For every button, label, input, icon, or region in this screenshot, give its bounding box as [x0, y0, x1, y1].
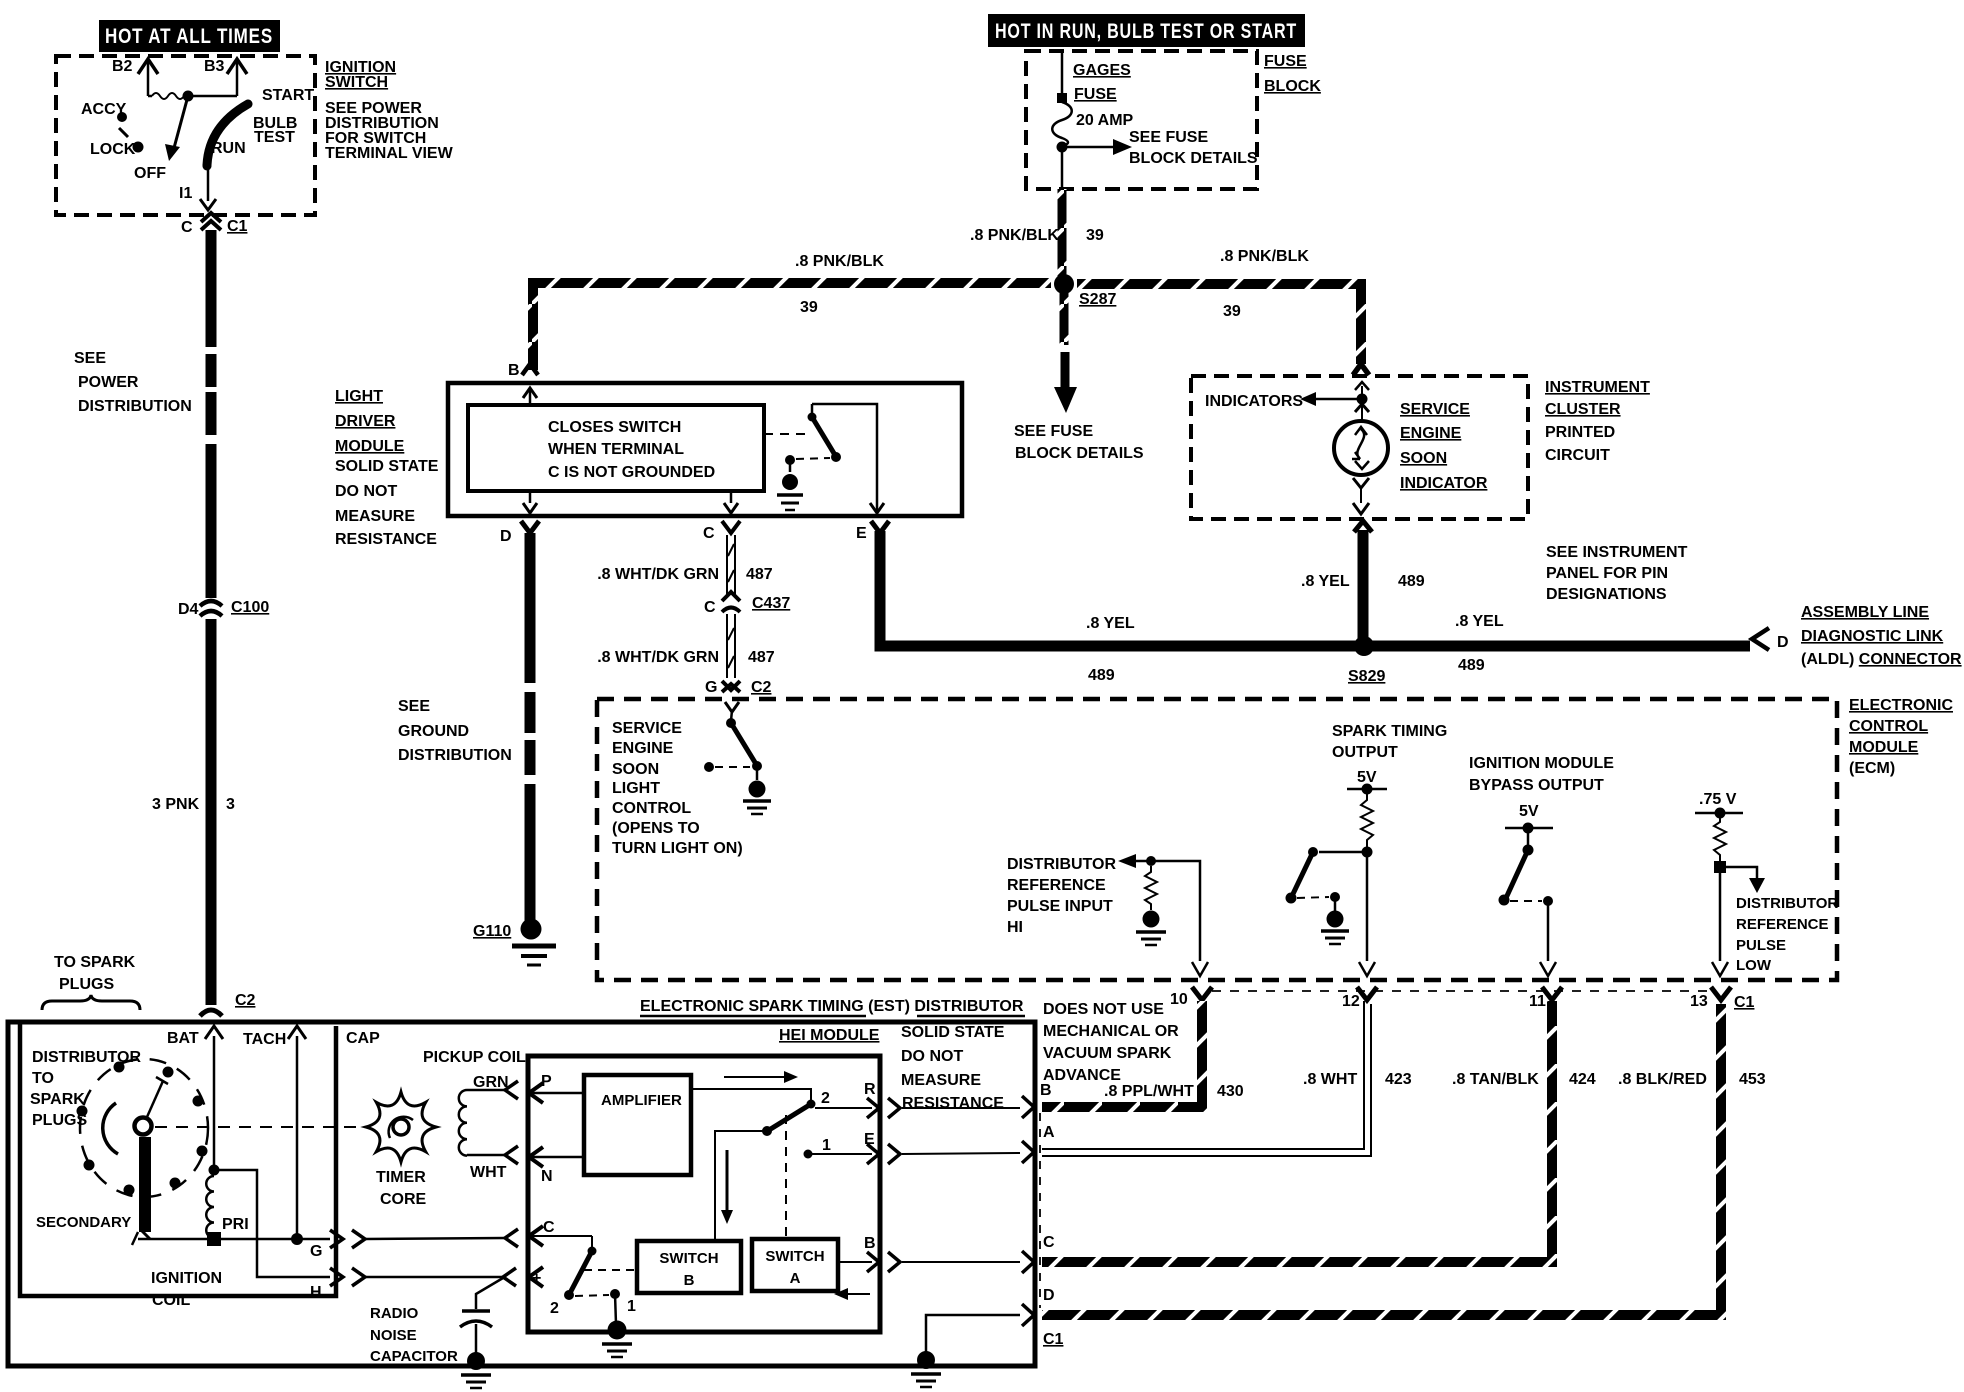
svg-text:PRI: PRI — [222, 1216, 249, 1233]
svg-text:TURN LIGHT ON): TURN LIGHT ON) — [612, 840, 743, 857]
dashed link lever to switch B — [584, 1269, 637, 1271]
svg-text:D4: D4 — [178, 601, 199, 618]
svg-text:BYPASS OUTPUT: BYPASS OUTPUT — [1469, 777, 1604, 794]
wire rotor to coil — [132, 1232, 330, 1245]
svg-text:CLOSES SWITCH: CLOSES SWITCH — [548, 419, 681, 436]
terminal G — [310, 1230, 365, 1260]
note ECM — [1849, 697, 1953, 777]
svg-text:SOON: SOON — [1400, 450, 1447, 467]
svg-text:N: N — [541, 1168, 553, 1185]
svg-text:BAT: BAT — [167, 1030, 199, 1047]
terminal C HEI — [529, 1219, 592, 1246]
ground SES switch — [743, 766, 771, 814]
wire amplifier to contact 2 — [691, 1089, 830, 1109]
svg-text:DO NOT: DO NOT — [901, 1048, 963, 1065]
spark timing output — [1332, 723, 1447, 795]
svg-text:487: 487 — [748, 649, 775, 666]
resistor ref pulse HI — [1145, 866, 1157, 910]
svg-text:IGNITION MODULE: IGNITION MODULE — [1469, 755, 1614, 772]
wire bypass to pin 11 — [1540, 901, 1556, 976]
svg-text:SOON: SOON — [612, 761, 659, 778]
svg-text:(ECM): (ECM) — [1849, 760, 1895, 777]
label pickup coil — [423, 1049, 526, 1066]
connector C100 — [178, 599, 269, 618]
svg-text:2: 2 — [550, 1300, 559, 1317]
dashed link to switch A — [785, 1115, 787, 1236]
terminal B3 — [204, 58, 247, 96]
pickup coil winding — [459, 1090, 467, 1156]
svg-text:SERVICE: SERVICE — [612, 720, 682, 737]
wire ref low to pin 13 — [1712, 873, 1728, 976]
svg-text:3: 3 — [226, 796, 235, 813]
svg-text:DISTRIBUTOR: DISTRIBUTOR — [1007, 856, 1116, 873]
svg-text:D: D — [1043, 1287, 1055, 1304]
svg-text:GRN: GRN — [473, 1074, 509, 1091]
svg-text:DO NOT: DO NOT — [335, 483, 397, 500]
flow arrow down — [721, 1150, 733, 1224]
svg-text:CIRCUIT: CIRCUIT — [1545, 447, 1610, 464]
terminal D — [500, 521, 539, 545]
svg-text:39: 39 — [1086, 227, 1104, 244]
wire .8 WHT 423 — [1042, 1001, 1412, 1156]
svg-text:C1: C1 — [227, 218, 248, 235]
internal switch — [764, 404, 841, 465]
HEI module box — [528, 1056, 880, 1332]
svg-text:C2: C2 — [235, 992, 256, 1009]
svg-text:.8 BLK/RED: .8 BLK/RED — [1618, 1071, 1707, 1088]
svg-text:CONTROL: CONTROL — [1849, 718, 1928, 735]
svg-text:ENGINE: ENGINE — [612, 740, 674, 757]
wire .8 BLK/RED 453 — [1042, 1004, 1766, 1315]
svg-text:CAP: CAP — [346, 1030, 380, 1047]
svg-text:DISTRIBUTOR: DISTRIBUTOR — [32, 1049, 141, 1066]
svg-text:DISTRIBUTOR: DISTRIBUTOR — [1736, 895, 1838, 912]
fuse block box — [1026, 51, 1321, 189]
connector C1 (ignition switch to harness) — [181, 213, 248, 236]
svg-text:424: 424 — [1569, 1071, 1596, 1088]
svg-text:REFERENCE: REFERENCE — [1736, 916, 1829, 933]
SES light control switch — [704, 702, 762, 772]
svg-text:CONTROL: CONTROL — [612, 800, 691, 817]
resistor ref pulse low — [1714, 813, 1726, 862]
svg-text:MODULE: MODULE — [1849, 739, 1919, 756]
splice S287 — [1054, 274, 1116, 308]
svg-text:LIGHT: LIGHT — [612, 780, 660, 797]
title HEI MODULE — [779, 1027, 880, 1044]
arrow under switch A — [834, 1288, 870, 1300]
label I1 — [179, 185, 192, 202]
rotor — [103, 1077, 168, 1239]
svg-text:B3: B3 — [204, 58, 225, 75]
wire spark timing to pin 12 — [1359, 852, 1375, 976]
svg-text:CAPACITOR: CAPACITOR — [370, 1348, 458, 1365]
wire R to B — [902, 1107, 1020, 1109]
SECTION-G distributor — [8, 954, 1766, 1388]
wire into fuse — [1057, 51, 1067, 103]
svg-text:C: C — [703, 525, 715, 542]
pin 10 chevron — [1192, 987, 1212, 1000]
driver logic box — [468, 405, 764, 491]
svg-text:PANEL FOR PIN: PANEL FOR PIN — [1546, 565, 1668, 582]
svg-text:HOT AT ALL TIMES: HOT AT ALL TIMES — [105, 25, 273, 48]
svg-text:C IS NOT GROUNDED: C IS NOT GROUNDED — [548, 464, 715, 481]
distributor cap ring — [77, 1059, 209, 1197]
pin 13 chevron — [1711, 987, 1731, 1000]
svg-text:39: 39 — [1223, 303, 1241, 320]
svg-text:PRINTED: PRINTED — [1545, 424, 1615, 441]
svg-text:DOES NOT USE: DOES NOT USE — [1043, 1001, 1164, 1018]
note see instrument panel — [1546, 544, 1688, 603]
svg-text:.8 WHT/DK GRN: .8 WHT/DK GRN — [597, 566, 719, 583]
svg-text:NOISE: NOISE — [370, 1327, 417, 1344]
svg-text:B: B — [1040, 1082, 1052, 1099]
svg-text:TEST: TEST — [254, 129, 295, 146]
ignition coil box — [20, 1024, 336, 1296]
svg-text:PULSE: PULSE — [1736, 937, 1786, 954]
note SES light control — [612, 720, 743, 857]
pin 12 chevron — [1357, 987, 1377, 1000]
connector C2 to ECM — [705, 679, 772, 696]
terminal D distributor — [1022, 1287, 1064, 1348]
wire RUN to C — [200, 162, 216, 211]
svg-text:RADIO: RADIO — [370, 1305, 419, 1322]
wire logic to D — [523, 491, 537, 513]
svg-text:5V: 5V — [1519, 803, 1539, 820]
svg-text:(ALDL) CONNECTOR: (ALDL) CONNECTOR — [1801, 651, 1962, 668]
svg-text:HOT IN RUN, BULB TEST OR START: HOT IN RUN, BULB TEST OR START — [995, 20, 1297, 43]
svg-text:I1: I1 — [179, 185, 192, 202]
svg-text:LOW: LOW — [1736, 957, 1772, 974]
node ref pulse low — [1714, 861, 1726, 873]
svg-text:R: R — [864, 1081, 876, 1098]
svg-text:OFF: OFF — [134, 165, 166, 182]
svg-text:SECONDARY: SECONDARY — [36, 1214, 131, 1231]
svg-text:SEE FUSE: SEE FUSE — [1129, 129, 1208, 146]
arrow see fuse block details — [1067, 129, 1258, 167]
svg-text:.8 TAN/BLK: .8 TAN/BLK — [1452, 1071, 1539, 1088]
note ALDL — [1801, 604, 1962, 668]
terminal R — [815, 1081, 900, 1118]
svg-text:G: G — [310, 1243, 322, 1260]
node TACH on G wire — [291, 1233, 303, 1245]
terminal C — [703, 521, 740, 542]
svg-text:13: 13 — [1690, 993, 1708, 1010]
SECTION-A ignition switch — [56, 20, 454, 215]
switch B box — [637, 1241, 741, 1293]
SECTION-F ECM — [597, 697, 1953, 1011]
svg-text:A: A — [790, 1270, 801, 1287]
svg-text:C: C — [704, 599, 716, 616]
ground ref pulse HI — [1136, 911, 1166, 946]
resistor spark timing — [1361, 789, 1373, 847]
wire H to HEI plus — [365, 1268, 516, 1286]
svg-text:LOCK: LOCK — [90, 141, 136, 158]
svg-text:MEASURE: MEASURE — [901, 1072, 981, 1089]
lever START — [207, 87, 314, 165]
svg-text:D: D — [1777, 634, 1789, 651]
terminal B HEI — [838, 1235, 900, 1272]
svg-text:SPARK TIMING: SPARK TIMING — [1332, 723, 1447, 740]
wire .8 PNK/BLK to light driver module — [533, 253, 1051, 370]
svg-text:.75 V: .75 V — [1699, 791, 1737, 808]
svg-text:GAGES: GAGES — [1073, 62, 1131, 79]
svg-text:MEASURE: MEASURE — [335, 508, 415, 525]
wire B to C — [902, 1261, 1020, 1263]
label BULB TEST — [253, 115, 297, 146]
terminal H — [310, 1268, 365, 1301]
radio noise capacitor — [370, 1278, 503, 1365]
svg-text:S829: S829 — [1348, 668, 1385, 685]
wire D to case ground — [926, 1315, 1020, 1360]
note see ground distribution — [398, 698, 512, 764]
distributor outer box — [8, 1022, 1035, 1366]
svg-text:1: 1 — [822, 1137, 831, 1154]
svg-text:3 PNK: 3 PNK — [152, 796, 200, 813]
svg-text:TO SPARK: TO SPARK — [54, 954, 136, 971]
switch lever to OFF — [165, 96, 188, 161]
svg-text:WHEN TERMINAL: WHEN TERMINAL — [548, 441, 684, 458]
note instrument cluster printed circuit — [1545, 379, 1650, 464]
wire 3 PNK ignition feed — [206, 230, 217, 598]
ALDL connector arrow D — [1752, 628, 1789, 651]
svg-text:B: B — [864, 1235, 876, 1252]
node coil primary top — [209, 1165, 220, 1176]
svg-text:12: 12 — [1342, 993, 1360, 1010]
svg-text:TACH: TACH — [243, 1031, 286, 1048]
wire B2-B3 bus — [148, 93, 237, 99]
svg-text:BLOCK DETAILS: BLOCK DETAILS — [1015, 445, 1144, 462]
SECTION-C fuse block — [533, 14, 1361, 462]
contact LOCK — [90, 128, 144, 158]
svg-text:TO: TO — [32, 1070, 54, 1087]
contact 1 — [804, 1137, 873, 1159]
SECTION-B left power wire — [74, 213, 269, 1016]
label .8 YEL 489 right — [1455, 613, 1504, 674]
svg-text:11: 11 — [1529, 993, 1546, 1010]
svg-text:TIMER: TIMER — [376, 1169, 426, 1186]
svg-text:CORE: CORE — [380, 1191, 427, 1208]
SECTION-E instrument cluster and ALDL — [1191, 364, 1962, 685]
wire E to A — [902, 1153, 1020, 1154]
svg-text:PLUGS: PLUGS — [59, 976, 114, 993]
svg-text:430: 430 — [1217, 1083, 1244, 1100]
svg-text:SOLID STATE: SOLID STATE — [335, 458, 439, 475]
svg-text:HEI MODULE: HEI MODULE — [779, 1027, 880, 1044]
lead GRN — [467, 1074, 518, 1099]
node fuse output — [1057, 142, 1068, 189]
ground spark timing switch — [1321, 897, 1349, 944]
svg-text:SERVICE: SERVICE — [1400, 401, 1470, 418]
svg-text:C1: C1 — [1734, 994, 1755, 1011]
svg-text:DESIGNATIONS: DESIGNATIONS — [1546, 586, 1667, 603]
wire G to HEI C — [365, 1229, 518, 1247]
wire .8 PNK/BLK 39 from fuse — [970, 189, 1104, 278]
svg-text:.8 PNK/BLK: .8 PNK/BLK — [1220, 248, 1309, 265]
label ignition coil — [151, 1270, 222, 1309]
svg-text:B2: B2 — [112, 58, 133, 75]
SECTION-H HEI module — [528, 1024, 1020, 1357]
svg-text:DISTRIBUTION: DISTRIBUTION — [398, 747, 512, 764]
banner HOT IN RUN, BULB TEST OR START — [988, 14, 1305, 47]
arrow distributor reference pulse low — [1720, 867, 1838, 974]
svg-text:C: C — [1043, 1234, 1055, 1251]
terminal E — [864, 1131, 900, 1164]
svg-text:MODULE: MODULE — [335, 438, 405, 455]
switch 2-1 coil control — [550, 1236, 636, 1317]
terminal B top — [508, 362, 538, 405]
svg-text:SWITCH: SWITCH — [659, 1250, 718, 1267]
note light driver module — [335, 388, 439, 548]
svg-text:DRIVER: DRIVER — [335, 413, 396, 430]
coil PRI winding — [206, 1176, 248, 1238]
note to spark plugs — [42, 954, 140, 1010]
ground HEI — [602, 1294, 632, 1357]
svg-text:.8 PPL/WHT: .8 PPL/WHT — [1104, 1083, 1194, 1100]
svg-text:5V: 5V — [1357, 769, 1377, 786]
svg-text:SWITCH: SWITCH — [765, 1248, 824, 1265]
terminal B2 — [112, 58, 158, 96]
node coil primary bottom — [207, 1232, 221, 1246]
SECTION-D light driver module — [335, 362, 1750, 965]
lead WHT — [467, 1146, 518, 1181]
svg-text:E: E — [856, 525, 867, 542]
svg-text:C100: C100 — [231, 599, 269, 616]
ground in module — [777, 460, 803, 510]
node switch pivot — [183, 91, 194, 102]
svg-text:.8 WHT/DK GRN: .8 WHT/DK GRN — [597, 649, 719, 666]
svg-text:.8 YEL: .8 YEL — [1086, 615, 1135, 632]
svg-text:39: 39 — [800, 299, 818, 316]
note distributor to spark plugs — [30, 1049, 141, 1129]
svg-text:SEE FUSE: SEE FUSE — [1014, 423, 1093, 440]
svg-text:HI: HI — [1007, 919, 1023, 936]
node indicators junction — [1357, 394, 1368, 405]
terminal plus — [529, 1267, 543, 1287]
label .8 YEL 489 left — [1086, 615, 1135, 684]
connector C1 pin row — [1170, 991, 1755, 1011]
svg-text:.8 PNK/BLK: .8 PNK/BLK — [795, 253, 884, 270]
terminal N — [529, 1147, 584, 1185]
terminal TACH — [243, 1026, 306, 1236]
svg-text:SEE: SEE — [74, 350, 106, 367]
svg-text:PULSE INPUT: PULSE INPUT — [1007, 898, 1113, 915]
terminal BAT — [167, 1026, 223, 1168]
arrow to INDICATORS — [1205, 392, 1357, 410]
indicator bulb — [1334, 421, 1388, 475]
svg-text:C2: C2 — [751, 679, 772, 696]
svg-text:POWER: POWER — [78, 374, 139, 391]
svg-text:.8 WHT: .8 WHT — [1303, 1071, 1357, 1088]
svg-text:BLOCK: BLOCK — [1264, 78, 1321, 95]
svg-text:.8 PNK/BLK: .8 PNK/BLK — [970, 227, 1059, 244]
connector dashed line C1 — [1039, 1113, 1041, 1308]
splice S829 — [1348, 636, 1385, 685]
svg-text:489: 489 — [1398, 573, 1425, 590]
svg-text:MECHANICAL OR: MECHANICAL OR — [1043, 1023, 1179, 1040]
terminal C distributor — [1022, 1234, 1055, 1273]
note see power distribution — [74, 350, 192, 415]
svg-text:INDICATOR: INDICATOR — [1400, 475, 1488, 492]
wire switch to E — [812, 404, 877, 512]
svg-text:C: C — [181, 219, 193, 236]
switch lever EST — [715, 1104, 811, 1241]
ECM box — [597, 699, 1837, 980]
svg-text:SWITCH: SWITCH — [325, 74, 388, 91]
note does not use mechanical advance — [1043, 1001, 1179, 1084]
connector C2 (to distributor BAT) — [200, 992, 256, 1016]
terminal B distributor — [1022, 1082, 1052, 1118]
wire 3 PNK lower — [152, 619, 235, 1005]
svg-text:20 AMP: 20 AMP — [1076, 112, 1134, 129]
svg-text:G110: G110 — [473, 923, 511, 940]
svg-text:INSTRUMENT: INSTRUMENT — [1545, 379, 1650, 396]
label OFF — [134, 165, 166, 182]
svg-text:RESISTANCE: RESISTANCE — [335, 531, 437, 548]
timer core star — [366, 1092, 436, 1162]
terminal E — [856, 503, 889, 542]
svg-text:OUTPUT: OUTPUT — [1332, 744, 1398, 761]
note ignition switch — [325, 59, 454, 162]
wire cluster to S829 — [1301, 521, 1425, 641]
svg-text:COIL: COIL — [152, 1292, 190, 1309]
svg-text:WHT: WHT — [470, 1164, 507, 1181]
ground radio capacitor — [461, 1352, 491, 1388]
wire logic to C — [724, 491, 738, 513]
svg-text:C437: C437 — [752, 595, 790, 612]
svg-text:ADVANCE: ADVANCE — [1043, 1067, 1121, 1084]
light driver module box — [448, 383, 962, 516]
svg-text:ASSEMBLY LINE: ASSEMBLY LINE — [1801, 604, 1929, 621]
svg-text:SEE INSTRUMENT: SEE INSTRUMENT — [1546, 544, 1688, 561]
wire to bulb — [1355, 404, 1369, 421]
svg-text:C: C — [543, 1219, 555, 1236]
banner HOT AT ALL TIMES — [99, 20, 280, 52]
svg-text:SPARK: SPARK — [30, 1091, 85, 1108]
distributor reference pulse input HI — [1007, 854, 1200, 961]
label timer core — [376, 1169, 427, 1208]
reference pulse low source — [1695, 791, 1743, 819]
label RUN — [211, 140, 246, 157]
wire bulb to cluster bottom — [1353, 478, 1369, 514]
svg-text:ELECTRONIC: ELECTRONIC — [1849, 697, 1953, 714]
svg-text:.8 YEL: .8 YEL — [1301, 573, 1350, 590]
connector C437 — [704, 592, 790, 616]
svg-text:INDICATORS: INDICATORS — [1205, 393, 1303, 410]
switch A box — [752, 1239, 838, 1291]
svg-text:B: B — [684, 1272, 695, 1289]
svg-text:SOLID STATE: SOLID STATE — [901, 1024, 1005, 1041]
svg-text:START: START — [262, 87, 314, 104]
note solid state — [901, 1024, 1005, 1112]
svg-text:FUSE: FUSE — [1264, 53, 1307, 70]
wire .8 PPL/WHT 430 — [1042, 1001, 1244, 1107]
svg-text:AMPLIFIER: AMPLIFIER — [601, 1092, 682, 1109]
wire D to G110 — [525, 533, 536, 922]
terminal A distributor — [1022, 1124, 1055, 1163]
wire .8 TAN/BLK 424 — [1042, 1001, 1596, 1262]
pin 10 arrow inside ECM — [1192, 962, 1208, 976]
svg-text:G: G — [705, 679, 717, 696]
svg-text:(OPENS TO: (OPENS TO — [612, 820, 700, 837]
svg-text:RESISTANCE: RESISTANCE — [902, 1095, 1004, 1112]
svg-text:10: 10 — [1170, 991, 1188, 1008]
svg-text:487: 487 — [746, 566, 773, 583]
switch ignition bypass — [1499, 828, 1554, 906]
svg-text:D: D — [500, 528, 512, 545]
wire .8 WHT/DK GRN lower — [597, 614, 775, 678]
pin 11 chevron — [1542, 987, 1562, 1000]
svg-text:CLUSTER: CLUSTER — [1545, 401, 1621, 418]
